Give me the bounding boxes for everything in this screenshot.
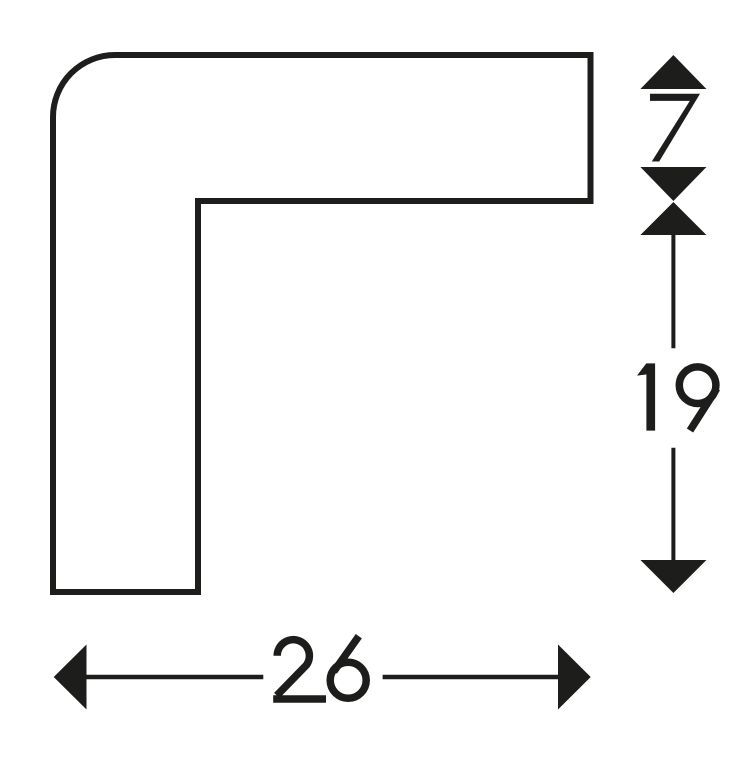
dimension 7: top arrow (up) (640, 55, 706, 89)
dimension 19: label "19" (637, 363, 655, 430)
dimension 19: top arrow (up) (640, 202, 706, 235)
dimension 26: left line (86, 675, 263, 680)
dimension 26: right line (383, 675, 559, 680)
dimension 19: lower line (671, 448, 675, 561)
dimension 19: upper line (671, 234, 675, 348)
dimension 26: left arrow (54, 645, 87, 710)
dimension 19: bottom arrow (down) (640, 560, 706, 593)
dimension 7: bottom arrow (down) (640, 167, 706, 201)
dimension 26: label "26" (273, 636, 366, 699)
dimension 7: label "7" (650, 94, 700, 162)
L-profile outline (53, 55, 591, 592)
dimension 26: right arrow (558, 645, 591, 710)
